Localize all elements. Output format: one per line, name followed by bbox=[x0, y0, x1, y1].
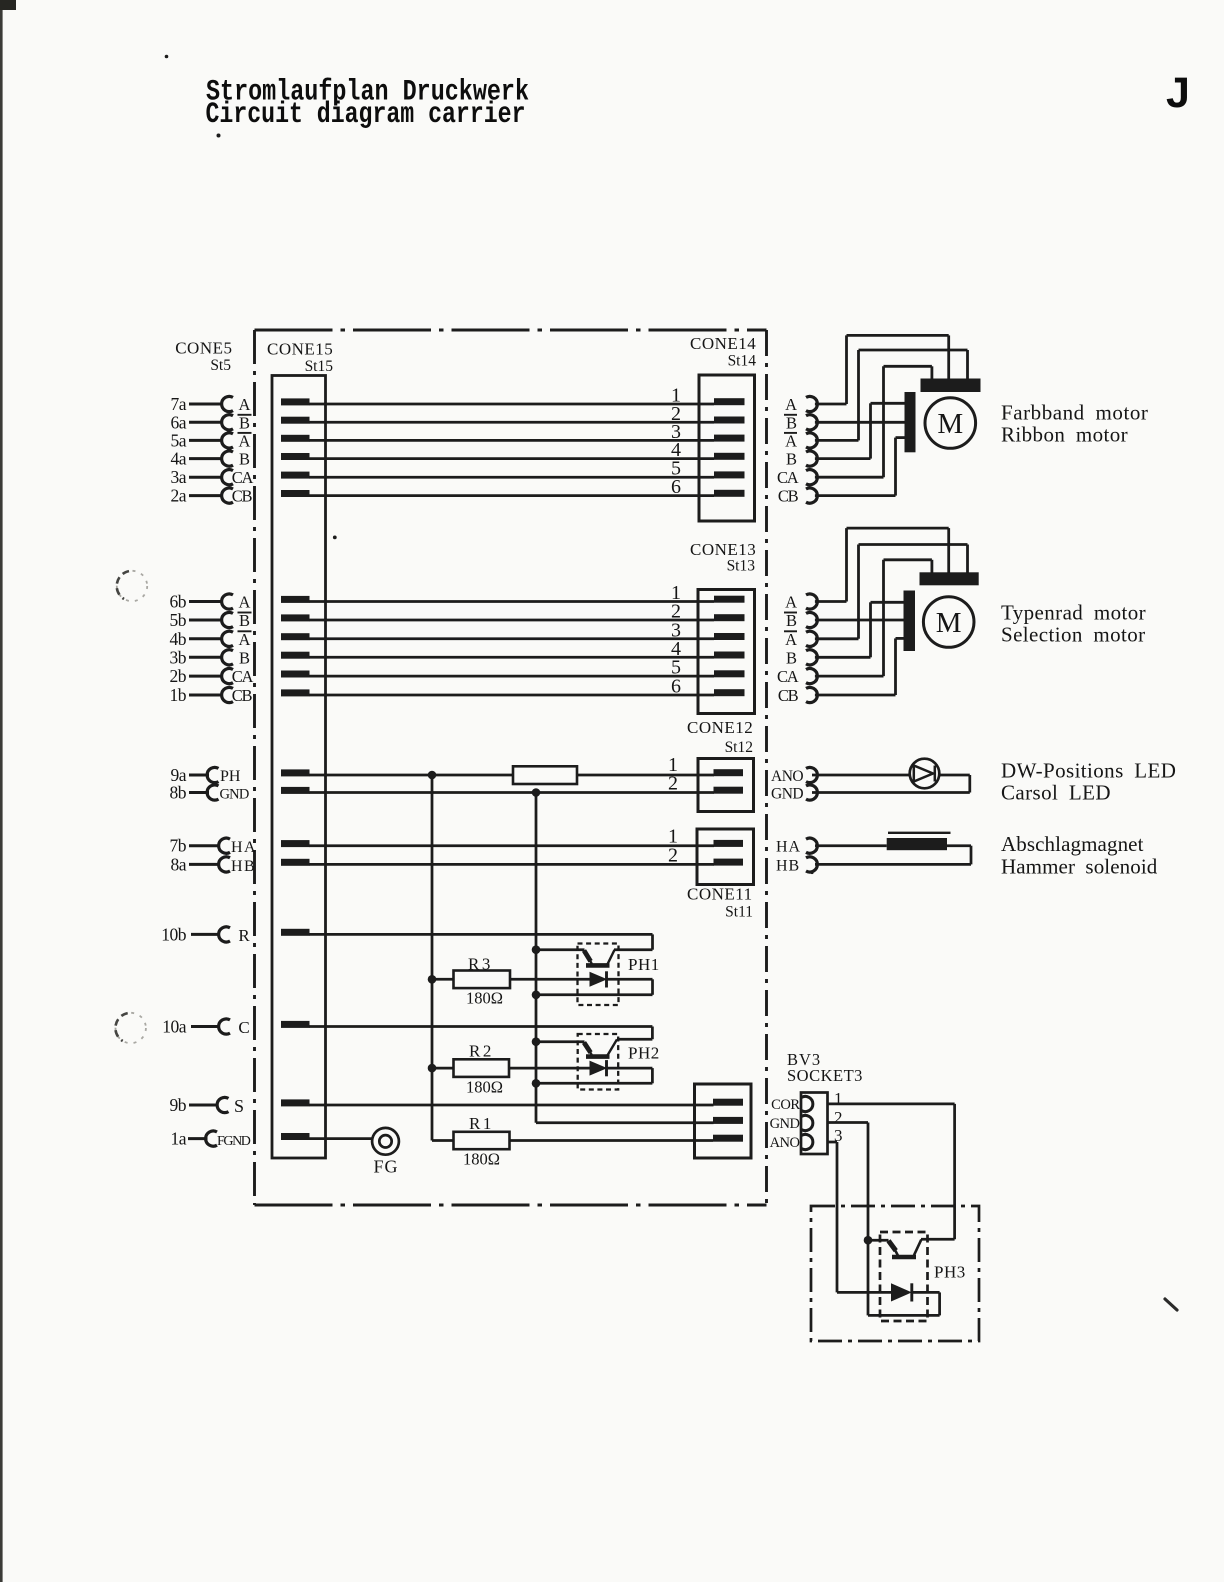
svg-text:A: A bbox=[785, 395, 797, 414]
svg-text:R2: R2 bbox=[469, 1042, 494, 1061]
svg-text:St12: St12 bbox=[725, 739, 753, 756]
svg-text:CB: CB bbox=[778, 487, 799, 506]
svg-text:SOCKET3: SOCKET3 bbox=[787, 1066, 863, 1085]
svg-text:CB: CB bbox=[778, 686, 799, 705]
svg-text:6: 6 bbox=[671, 476, 681, 498]
svg-text:B: B bbox=[239, 611, 250, 630]
svg-text:180Ω: 180Ω bbox=[466, 989, 503, 1008]
svg-text:2b: 2b bbox=[170, 666, 187, 686]
svg-text:R: R bbox=[238, 926, 250, 945]
svg-text:Abschlagmagnet: Abschlagmagnet bbox=[1001, 832, 1144, 856]
svg-text:2: 2 bbox=[668, 773, 678, 795]
svg-text:CONE15: CONE15 bbox=[267, 340, 333, 359]
svg-text:2: 2 bbox=[834, 1108, 843, 1127]
svg-text:A: A bbox=[239, 593, 251, 612]
svg-text:8b: 8b bbox=[170, 783, 187, 803]
svg-text:PH3: PH3 bbox=[934, 1263, 966, 1282]
svg-text:CONE11: CONE11 bbox=[687, 885, 753, 904]
svg-text:Carsol LED: Carsol LED bbox=[1001, 781, 1111, 805]
svg-text:St15: St15 bbox=[305, 358, 334, 375]
svg-text:2: 2 bbox=[668, 844, 678, 866]
svg-text:M: M bbox=[936, 607, 962, 639]
svg-text:5a: 5a bbox=[170, 430, 186, 450]
svg-text:HB: HB bbox=[231, 858, 256, 875]
svg-text:10a: 10a bbox=[162, 1017, 187, 1037]
svg-text:6b: 6b bbox=[170, 592, 187, 612]
svg-text:HA: HA bbox=[776, 839, 801, 856]
svg-text:4b: 4b bbox=[170, 629, 187, 649]
svg-text:CONE12: CONE12 bbox=[687, 718, 753, 737]
svg-text:S: S bbox=[234, 1096, 244, 1116]
svg-text:1a: 1a bbox=[170, 1129, 186, 1149]
svg-text:3b: 3b bbox=[170, 647, 187, 667]
svg-text:Farbband motor: Farbband motor bbox=[1001, 401, 1148, 425]
svg-text:A: A bbox=[785, 431, 797, 450]
svg-text:A: A bbox=[239, 431, 251, 450]
svg-text:CA: CA bbox=[232, 667, 254, 686]
svg-text:1b: 1b bbox=[170, 685, 187, 705]
svg-text:Ribbon motor: Ribbon motor bbox=[1001, 423, 1128, 447]
svg-text:FG: FG bbox=[374, 1157, 399, 1177]
svg-text:HA: HA bbox=[231, 839, 257, 856]
svg-text:J: J bbox=[1166, 69, 1190, 117]
svg-text:6: 6 bbox=[671, 676, 681, 698]
svg-text:ANO: ANO bbox=[771, 768, 803, 785]
svg-text:St13: St13 bbox=[727, 558, 756, 575]
svg-text:9b: 9b bbox=[170, 1095, 187, 1115]
svg-text:CONE5: CONE5 bbox=[175, 339, 232, 358]
svg-text:B: B bbox=[786, 413, 797, 432]
svg-text:HB: HB bbox=[776, 857, 800, 874]
svg-text:COR: COR bbox=[771, 1097, 800, 1113]
svg-text:PH1: PH1 bbox=[628, 955, 660, 974]
svg-text:DW-Positions LED: DW-Positions LED bbox=[1001, 759, 1176, 783]
svg-text:C: C bbox=[238, 1018, 249, 1037]
svg-text:Selection motor: Selection motor bbox=[1001, 623, 1146, 647]
svg-text:A: A bbox=[785, 630, 797, 649]
svg-text:B: B bbox=[239, 450, 250, 469]
svg-text:Circuit diagram carrier: Circuit diagram carrier bbox=[206, 97, 526, 131]
svg-text:A: A bbox=[785, 593, 797, 612]
svg-text:PH2: PH2 bbox=[628, 1044, 660, 1063]
svg-text:CA: CA bbox=[232, 468, 254, 487]
svg-text:M: M bbox=[937, 408, 963, 440]
svg-text:Typenrad motor: Typenrad motor bbox=[1001, 601, 1146, 625]
svg-text:10b: 10b bbox=[161, 924, 187, 944]
svg-text:180Ω: 180Ω bbox=[463, 1149, 500, 1168]
svg-text:A: A bbox=[239, 630, 251, 649]
svg-text:St11: St11 bbox=[725, 904, 753, 921]
svg-text:St14: St14 bbox=[728, 353, 757, 370]
svg-text:6a: 6a bbox=[170, 412, 186, 432]
svg-text:GND: GND bbox=[771, 786, 803, 803]
svg-text:B: B bbox=[239, 413, 250, 432]
svg-text:B: B bbox=[786, 611, 797, 630]
svg-text:5b: 5b bbox=[170, 610, 187, 630]
svg-text:GND: GND bbox=[770, 1116, 800, 1132]
svg-text:CB: CB bbox=[232, 487, 253, 506]
svg-text:GND: GND bbox=[220, 787, 249, 803]
svg-text:B: B bbox=[786, 450, 797, 469]
svg-text:4a: 4a bbox=[170, 449, 186, 469]
svg-text:R1: R1 bbox=[469, 1114, 494, 1133]
svg-text:B: B bbox=[786, 648, 797, 667]
svg-text:A: A bbox=[239, 395, 251, 414]
svg-text:CA: CA bbox=[777, 468, 799, 487]
svg-text:St5: St5 bbox=[210, 357, 231, 374]
svg-text:180Ω: 180Ω bbox=[466, 1078, 503, 1097]
svg-text:3a: 3a bbox=[170, 467, 186, 487]
svg-text:CB: CB bbox=[232, 686, 253, 705]
svg-text:FGND: FGND bbox=[217, 1134, 251, 1149]
svg-text:CONE13: CONE13 bbox=[690, 540, 756, 559]
svg-text:R3: R3 bbox=[468, 955, 493, 974]
svg-text:7a: 7a bbox=[170, 394, 186, 414]
svg-text:ANO: ANO bbox=[770, 1135, 800, 1151]
svg-text:CONE14: CONE14 bbox=[690, 334, 756, 353]
svg-text:7b: 7b bbox=[170, 836, 187, 856]
svg-text:Hammer solenoid: Hammer solenoid bbox=[1001, 855, 1158, 879]
svg-text:PH: PH bbox=[220, 768, 241, 785]
svg-text:B: B bbox=[239, 648, 250, 667]
svg-text:CA: CA bbox=[777, 667, 799, 686]
svg-text:8a: 8a bbox=[170, 854, 186, 874]
svg-text:2a: 2a bbox=[170, 486, 186, 506]
